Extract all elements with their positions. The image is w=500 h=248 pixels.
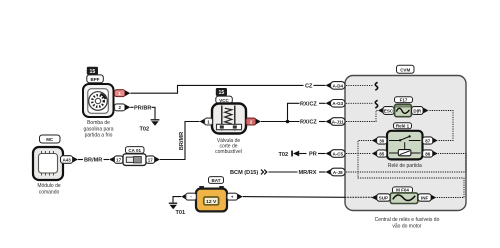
fuse M F04 pin SUP: [372, 194, 391, 201]
caption Relé de partida: [388, 163, 422, 169]
svg-text:CA 01: CA 01: [128, 148, 141, 153]
svg-text:comando: comando: [39, 189, 60, 195]
svg-text:BAT: BAT: [212, 178, 221, 183]
wire branch RX/CZ to A-G3: [288, 102, 326, 122]
svg-text:A-D4: A-D4: [333, 83, 344, 88]
svg-text:30: 30: [379, 138, 385, 143]
wire valve pin2 RX/CZ to A-J11: [261, 120, 326, 126]
label 15 (valve fuse tag): [216, 88, 227, 96]
continuation squiggle at A-D4: [375, 82, 377, 90]
svg-text:Relé de partida: Relé de partida: [388, 163, 422, 169]
wire dashed D|R to relay 87: [430, 111, 454, 141]
svg-text:SUP: SUP: [379, 195, 388, 200]
continuation squiggle at A-G3: [375, 100, 377, 108]
svg-text:Bomba de: Bomba de: [87, 120, 110, 126]
svg-text:Módulo de: Módulo de: [37, 183, 61, 189]
ground T02: [140, 120, 160, 133]
svg-text:D|R: D|R: [413, 108, 422, 113]
junction node: [286, 120, 290, 124]
valve pin 2: [246, 118, 261, 125]
CVM box (Central de relés e fusíveis do vão do motor): [345, 76, 466, 211]
svg-text:86: 86: [425, 151, 431, 156]
relay pin 85: [372, 150, 387, 157]
svg-text:MC: MC: [46, 137, 54, 142]
wire PR to A-C5 with T02 arrow: [279, 151, 326, 158]
svg-text:T02: T02: [279, 152, 289, 158]
label CVM: [397, 65, 415, 73]
wire battery- to T01: [173, 197, 181, 203]
relay pin 86: [423, 150, 438, 157]
svg-text:A-G3: A-G3: [332, 101, 343, 106]
svg-text:A43: A43: [62, 157, 71, 162]
control module MC body: [33, 147, 63, 180]
relay coil: [389, 150, 421, 156]
pin A-G3: [326, 100, 346, 108]
fuse F17 pin ESC: [378, 107, 394, 115]
battery pin -: [181, 193, 196, 200]
relay internal switch: [389, 135, 421, 149]
valve seat plate: [217, 124, 242, 129]
svg-text:17: 17: [116, 157, 122, 162]
svg-text:combustível: combustível: [215, 149, 242, 155]
svg-text:87: 87: [425, 138, 431, 143]
pump pin 2: [115, 104, 131, 111]
caption Módulo de comando: [37, 183, 61, 195]
wire dashed relay 30 to fuse M F04 INF: [358, 141, 464, 198]
label MC: [40, 135, 61, 143]
svg-text:BPF: BPF: [91, 77, 100, 82]
svg-text:2: 2: [250, 119, 253, 124]
battery body: [196, 189, 227, 212]
relay pin 87: [423, 137, 438, 144]
ground T01: [169, 203, 185, 216]
module pin A43: [61, 156, 79, 164]
relay pin 30: [372, 137, 387, 144]
fuse M F04 label: [393, 187, 413, 193]
svg-text:PR: PR: [309, 152, 317, 158]
wire dotted battery+ to SUP (inside box): [345, 196, 372, 198]
relay body Relé 1: [387, 131, 423, 160]
wire dashed A-C5 to relay 85: [346, 153, 371, 155]
wire dashed A-D4 internal: [346, 84, 373, 86]
valve spring: [225, 108, 232, 124]
connector CA 01 label: [126, 147, 145, 154]
svg-text:A-J8: A-J8: [333, 170, 343, 175]
wire A43 BR/MR: [78, 158, 109, 164]
svg-text:partida a frio: partida a frio: [85, 133, 113, 139]
svg-text:INF: INF: [421, 195, 429, 200]
pin A-C5: [326, 150, 346, 158]
svg-text:BCM (D15): BCM (D15): [230, 170, 258, 176]
svg-text:BR/MR: BR/MR: [84, 158, 102, 164]
battery terminals tabs: [199, 186, 224, 189]
pin A-D4: [326, 82, 346, 90]
pump icon (impeller): [89, 92, 108, 111]
svg-text:1: 1: [118, 91, 121, 96]
svg-text:Relé 1: Relé 1: [396, 124, 410, 129]
fuel pump BPF body: [83, 84, 114, 117]
svg-text:15: 15: [219, 90, 225, 96]
svg-text:PR/BR: PR/BR: [134, 106, 151, 112]
pin A-J8: [326, 168, 346, 176]
caption: Central de relés e fusíveis do vão do motor: [375, 217, 440, 230]
label BPF: [87, 75, 104, 83]
svg-text:F17: F17: [400, 97, 408, 102]
pump pin 1: [115, 90, 131, 97]
svg-text:BR/MR: BR/MR: [179, 132, 185, 150]
svg-text:Central de relés e fusíveis do: Central de relés e fusíveis do: [375, 217, 440, 223]
wire pump pin2 PR/BR: [130, 106, 155, 120]
wire battery+ to CVM: [243, 196, 345, 199]
caption Bomba de gasolina para partida a frio: [83, 120, 113, 139]
svg-text:15: 15: [90, 69, 96, 75]
wire dashed A-J11 to fuse F17 ESC: [346, 111, 378, 122]
svg-text:T01: T01: [176, 210, 186, 216]
wire dashed A-G3 internal: [346, 102, 373, 104]
svg-text:RX/CZ: RX/CZ: [300, 120, 317, 126]
svg-text:vão do motor: vão do motor: [392, 224, 422, 230]
label VCC: [216, 96, 233, 103]
svg-text:gasolina para: gasolina para: [83, 126, 113, 132]
svg-text:85: 85: [379, 151, 385, 156]
svg-text:ESC: ESC: [384, 108, 394, 113]
fuse F17 label: [395, 97, 413, 103]
wire CA01 to valve pin1 (vertical BR/MR): [160, 122, 200, 160]
svg-text:A-J11: A-J11: [332, 119, 345, 124]
relay label Relé 1: [394, 123, 412, 129]
svg-text:17: 17: [148, 157, 154, 162]
battery pin +: [227, 193, 243, 200]
label BAT: [209, 177, 224, 184]
svg-text:+: +: [231, 194, 234, 199]
valve pin 1: [200, 118, 213, 125]
wire dashed A-J8 to relay 86: [346, 154, 466, 173]
wire pump pin1 to CZ / A-D4: [130, 85, 303, 93]
caption Válvula de corte de combustível: [215, 138, 242, 155]
wire label CZ: [305, 84, 326, 90]
svg-text:CZ: CZ: [305, 84, 313, 90]
wire BCM (D15) MR/RX to A-J8: [230, 170, 326, 177]
pin A-J11: [326, 118, 346, 126]
label 15 (pump fuse tag): [87, 67, 98, 75]
fuse F17 element: [395, 104, 412, 116]
battery 12V display: [204, 197, 219, 205]
fuse F17 pin D|R: [412, 107, 429, 115]
svg-text:12 V: 12 V: [206, 199, 217, 205]
svg-text:RX/CZ: RX/CZ: [300, 102, 317, 108]
svg-text:A-C5: A-C5: [333, 151, 344, 156]
fuse M F04 element: [390, 193, 418, 204]
svg-text:CVM: CVM: [400, 67, 410, 72]
svg-text:M F04: M F04: [396, 188, 409, 193]
svg-text:T02: T02: [140, 127, 150, 133]
fuse M F04 pin INF: [418, 194, 436, 201]
fuel cut valve VCC body: [212, 104, 246, 134]
svg-text:VCC: VCC: [219, 98, 229, 103]
connector CA 01: [109, 154, 160, 166]
svg-text:MR/RX: MR/RX: [299, 170, 317, 176]
